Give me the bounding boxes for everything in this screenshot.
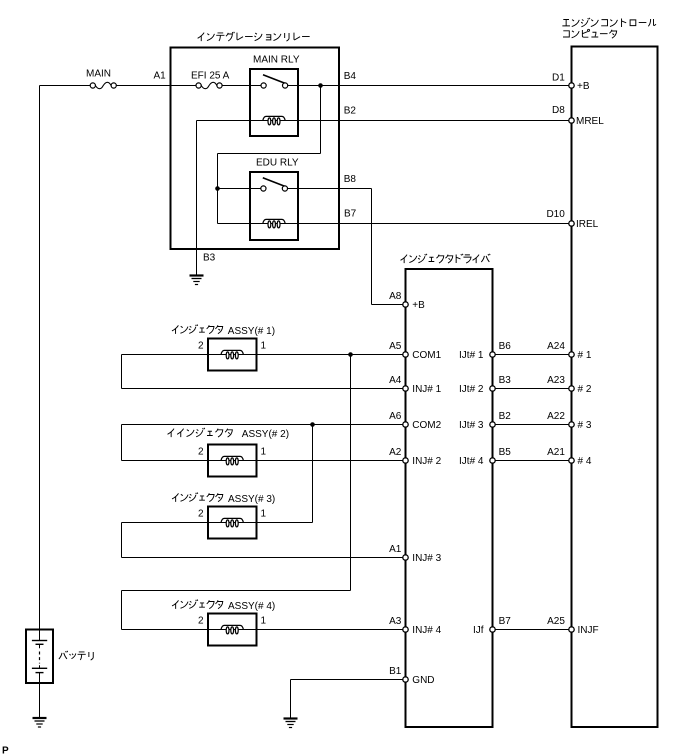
svg-text:ASSY(# 1): ASSY(# 1) bbox=[228, 326, 275, 337]
svg-text:B2: B2 bbox=[499, 411, 512, 422]
svg-text:IJt# 1: IJt# 1 bbox=[459, 350, 484, 361]
svg-text:2: 2 bbox=[198, 615, 204, 626]
svg-text:A24: A24 bbox=[547, 341, 565, 352]
svg-text:B7: B7 bbox=[344, 208, 357, 219]
svg-text:ASSY(# 4): ASSY(# 4) bbox=[228, 601, 275, 612]
svg-text:# 2: # 2 bbox=[578, 384, 592, 395]
svg-text:COM2: COM2 bbox=[412, 420, 441, 431]
svg-text:B3: B3 bbox=[203, 253, 216, 264]
svg-text:MAIN RLY: MAIN RLY bbox=[253, 54, 300, 65]
svg-text:1: 1 bbox=[261, 340, 267, 351]
svg-text:INJ# 1: INJ# 1 bbox=[412, 384, 441, 395]
svg-text:IJf: IJf bbox=[473, 625, 484, 636]
svg-text:B4: B4 bbox=[344, 71, 357, 82]
svg-text:INJ# 3: INJ# 3 bbox=[412, 553, 441, 564]
svg-text:1: 1 bbox=[261, 446, 267, 457]
svg-text:1: 1 bbox=[261, 508, 267, 519]
svg-text:A21: A21 bbox=[547, 447, 565, 458]
svg-text:A6: A6 bbox=[389, 411, 402, 422]
svg-text:ASSY(# 3): ASSY(# 3) bbox=[228, 494, 275, 505]
svg-text:MAIN: MAIN bbox=[86, 68, 111, 79]
svg-text:B8: B8 bbox=[344, 174, 357, 185]
svg-text:GND: GND bbox=[412, 675, 434, 686]
svg-text:MREL: MREL bbox=[576, 116, 604, 127]
svg-text:EFI 25 A: EFI 25 A bbox=[191, 70, 230, 81]
svg-text:2: 2 bbox=[198, 340, 204, 351]
svg-text:+B: +B bbox=[412, 300, 425, 311]
svg-text:A23: A23 bbox=[547, 375, 565, 386]
svg-text:+B: +B bbox=[577, 81, 590, 92]
svg-text:1: 1 bbox=[261, 615, 267, 626]
svg-text:A22: A22 bbox=[547, 411, 565, 422]
svg-text:IJt# 3: IJt# 3 bbox=[459, 420, 484, 431]
svg-text:B1: B1 bbox=[389, 666, 402, 677]
svg-text:# 3: # 3 bbox=[578, 420, 592, 431]
svg-text:D1: D1 bbox=[552, 73, 565, 84]
svg-text:D10: D10 bbox=[546, 209, 565, 220]
svg-text:# 4: # 4 bbox=[578, 456, 592, 467]
svg-text:A4: A4 bbox=[389, 375, 402, 386]
svg-text:COM1: COM1 bbox=[412, 350, 441, 361]
svg-text:# 1: # 1 bbox=[578, 350, 592, 361]
svg-text:EDU RLY: EDU RLY bbox=[256, 157, 299, 168]
svg-text:D8: D8 bbox=[552, 105, 565, 116]
svg-text:B2: B2 bbox=[344, 105, 357, 116]
svg-text:A25: A25 bbox=[547, 616, 565, 627]
svg-text:P: P bbox=[2, 746, 9, 755]
svg-text:INJ# 2: INJ# 2 bbox=[412, 456, 441, 467]
svg-text:INJF: INJF bbox=[578, 625, 599, 636]
svg-text:ASSY(# 2): ASSY(# 2) bbox=[242, 429, 289, 440]
svg-text:INJ# 4: INJ# 4 bbox=[412, 625, 441, 636]
svg-text:A8: A8 bbox=[389, 291, 402, 302]
svg-text:2: 2 bbox=[198, 446, 204, 457]
svg-text:A1: A1 bbox=[389, 544, 402, 555]
svg-text:B5: B5 bbox=[499, 447, 512, 458]
svg-text:B3: B3 bbox=[499, 375, 512, 386]
svg-text:IJt# 4: IJt# 4 bbox=[459, 456, 484, 467]
svg-text:IJt# 2: IJt# 2 bbox=[459, 384, 484, 395]
svg-text:2: 2 bbox=[198, 508, 204, 519]
svg-text:A3: A3 bbox=[389, 616, 402, 627]
svg-text:B6: B6 bbox=[499, 341, 512, 352]
svg-text:A1: A1 bbox=[154, 71, 167, 82]
svg-text:A2: A2 bbox=[389, 447, 402, 458]
svg-text:IREL: IREL bbox=[576, 219, 599, 230]
svg-text:B7: B7 bbox=[499, 616, 512, 627]
svg-text:A5: A5 bbox=[389, 341, 402, 352]
